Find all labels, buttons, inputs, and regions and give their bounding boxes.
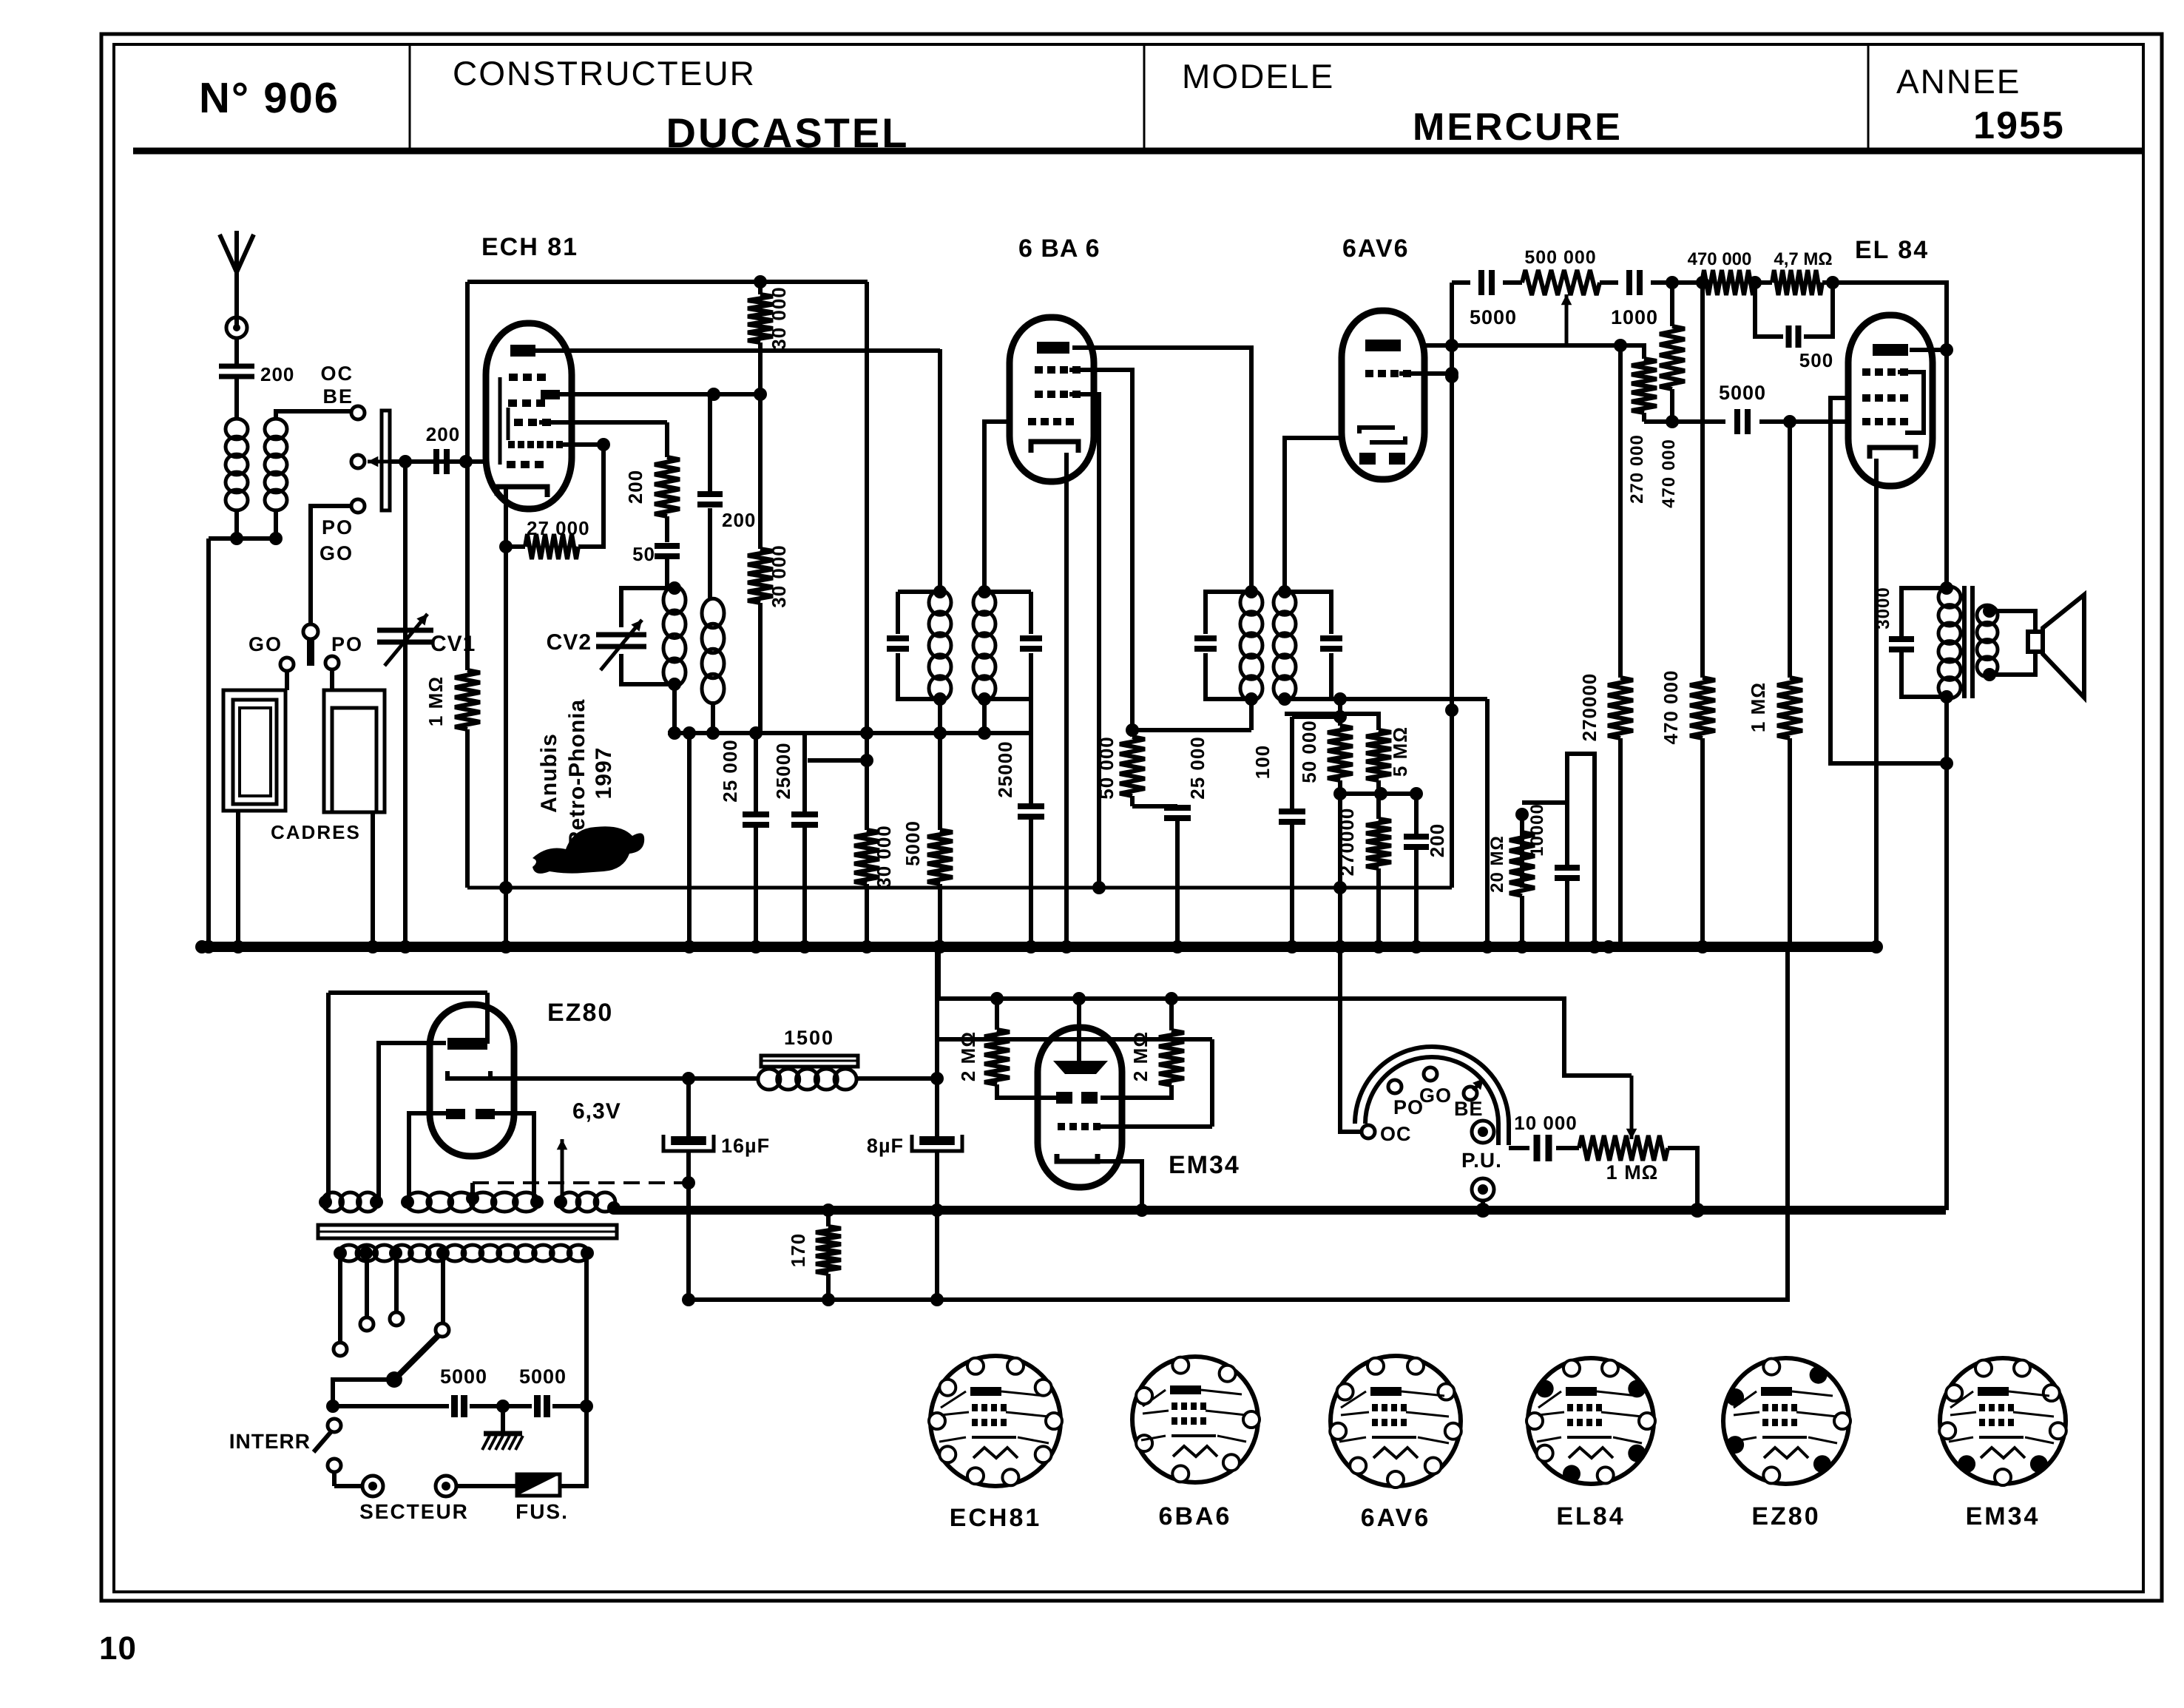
label EZ80 xyxy=(547,999,613,1027)
svg-text:27 000: 27 000 xyxy=(527,517,590,539)
transformer mains winding xyxy=(339,1245,589,1261)
tube ECH81 xyxy=(486,323,572,509)
return line xyxy=(686,947,1788,1300)
header bottom rule xyxy=(133,148,2143,155)
capacitor 200 input xyxy=(426,423,460,474)
svg-text:25 000: 25 000 xyxy=(719,739,741,803)
transformer HV winding xyxy=(322,1192,615,1212)
svg-text:1000: 1000 xyxy=(1611,306,1658,328)
label GO dial xyxy=(1419,1084,1452,1107)
svg-text:MERCURE: MERCURE xyxy=(1413,106,1623,149)
transformer core xyxy=(318,1225,617,1238)
capacitor 25000 b xyxy=(772,733,818,953)
IFT2 secondary tank xyxy=(1278,585,1342,706)
label 6AV6 xyxy=(1342,234,1410,263)
capacitor 3000 xyxy=(1873,587,1947,697)
svg-text:1997: 1997 xyxy=(592,747,616,800)
ECH81 g2 wire xyxy=(560,388,767,401)
resistor 27000 xyxy=(499,445,604,559)
transformer CT riser xyxy=(466,1192,479,1205)
capacitor 1000 xyxy=(1600,270,1679,328)
label 6.3V xyxy=(572,1099,621,1124)
title MERCURE xyxy=(1413,106,1623,149)
capacitor 25000 a xyxy=(719,726,769,953)
ECH81 g1 wire xyxy=(561,438,610,451)
6BA6 screen wire xyxy=(1069,370,1132,737)
heater bus xyxy=(614,1206,1946,1215)
band selector bar xyxy=(382,411,390,510)
osc right column xyxy=(860,282,873,830)
svg-text:50: 50 xyxy=(632,543,655,565)
detector node wire xyxy=(1340,787,1423,800)
svg-text:EM34: EM34 xyxy=(1169,1151,1240,1179)
header divider 3 xyxy=(1867,46,1870,151)
contact BE dial xyxy=(1464,1079,1484,1100)
svg-text:ANNEE: ANNEE xyxy=(1896,62,2021,101)
EL84 anode link xyxy=(1910,348,1947,352)
cadre PO frame xyxy=(324,690,385,812)
label PO dial xyxy=(1393,1096,1424,1118)
antenna coil L2 xyxy=(265,419,287,510)
resistor 270000 a xyxy=(1620,345,1657,504)
contact PO cadre xyxy=(325,656,339,690)
6AV6 grid row xyxy=(1365,367,1458,380)
antenna terminal xyxy=(226,317,247,338)
switch to interr xyxy=(326,1380,394,1413)
socket 6BA6 xyxy=(1132,1357,1260,1482)
svg-text:EL 84: EL 84 xyxy=(1855,236,1929,264)
svg-text:100: 100 xyxy=(1251,745,1274,779)
osc coil 2 xyxy=(702,598,724,740)
capacitor 200 antenna xyxy=(219,363,294,385)
svg-text:5000: 5000 xyxy=(440,1366,487,1388)
resistor 470000 top xyxy=(1672,249,1762,295)
svg-text:CV2: CV2 xyxy=(547,630,592,655)
wire to ground bus left xyxy=(202,539,215,953)
capacitor 16uF xyxy=(663,1079,770,1306)
svg-text:EZ80: EZ80 xyxy=(547,999,613,1027)
header divider 1 xyxy=(409,46,411,151)
IFT2 primary tank xyxy=(1194,585,1258,706)
EM34 deflector blocks xyxy=(1056,1092,1098,1104)
terminal SECTEUR 1 xyxy=(362,1476,383,1496)
resistor 50000 det xyxy=(1298,699,1353,953)
svg-text:6BA6: 6BA6 xyxy=(1159,1502,1232,1530)
IFT2 primary coil xyxy=(1240,590,1262,701)
ECH81 grid row 2 xyxy=(508,399,545,407)
contact PO dial xyxy=(1388,1080,1402,1093)
6BA6 grid row 2 xyxy=(1035,391,1081,398)
capacitor 5000 mains a xyxy=(333,1366,532,1417)
svg-text:2 MΩ: 2 MΩ xyxy=(957,1031,979,1081)
socket label ECH81 xyxy=(950,1504,1042,1532)
ECH81 cathode xyxy=(497,487,547,547)
6BA6 grid row 1 xyxy=(1035,366,1081,374)
svg-text:6AV6: 6AV6 xyxy=(1342,234,1410,263)
interr switch xyxy=(314,1419,341,1486)
title ANNEE xyxy=(1896,62,2021,101)
label PU xyxy=(1461,1149,1502,1172)
svg-text:6,3V: 6,3V xyxy=(572,1099,621,1124)
svg-text:EM34: EM34 xyxy=(1966,1502,2041,1530)
capacitor 25000 c xyxy=(994,699,1044,953)
svg-text:1500: 1500 xyxy=(784,1027,834,1049)
EL84 grid row 3 xyxy=(1862,418,1908,425)
6BA6 cathode xyxy=(1031,442,1078,453)
svg-text:6AV6: 6AV6 xyxy=(1361,1504,1431,1532)
resistor 30000 osc 2 xyxy=(748,394,790,733)
svg-text:SECTEUR: SECTEUR xyxy=(359,1500,469,1523)
title 1955 xyxy=(1973,104,2065,147)
svg-text:200: 200 xyxy=(624,470,646,504)
svg-text:N° 906: N° 906 xyxy=(199,74,339,122)
svg-text:GO: GO xyxy=(320,542,354,564)
tube 6BA6 xyxy=(1010,317,1094,482)
6BA6 AVC return xyxy=(1069,394,1106,894)
ECH81 grid row 3 xyxy=(514,419,551,426)
jack PU bottom wire xyxy=(1475,1201,1490,1218)
6AV6 anode wire xyxy=(1424,339,1644,352)
label GO xyxy=(249,633,283,655)
choke 1500 coil xyxy=(758,1069,856,1090)
page number 10 xyxy=(99,1630,137,1667)
mains tap drops xyxy=(340,1253,586,1406)
EZ80 plate2 wire xyxy=(379,1043,446,1202)
osc bottom line xyxy=(668,684,1030,740)
label OC dial xyxy=(1380,1123,1412,1145)
potentiometer 500000 xyxy=(1522,247,1600,295)
AVC column xyxy=(499,547,513,953)
capacitor 100 xyxy=(1251,710,1347,953)
EM34 grid row xyxy=(1058,1039,1212,1130)
svg-text:OC: OC xyxy=(321,362,354,385)
capacitor 200 det xyxy=(1404,794,1448,953)
ECH81 internal stems xyxy=(500,377,508,465)
cathode B+ wire xyxy=(490,1072,760,1085)
label 1500 xyxy=(784,1027,834,1049)
wire antenna to cap xyxy=(234,338,239,364)
svg-text:30 000: 30 000 xyxy=(768,544,790,608)
volume column xyxy=(1445,283,1458,888)
jack PU top xyxy=(1472,1121,1494,1143)
resistor 4.7 Mohm xyxy=(1755,249,1839,295)
jack PU bottom xyxy=(1472,1178,1494,1201)
contact GO cadre xyxy=(280,658,294,690)
svg-text:200: 200 xyxy=(260,363,294,385)
6BA6 cathode drop xyxy=(1060,453,1073,953)
title N 906 xyxy=(199,74,339,122)
osc top line xyxy=(467,280,868,284)
EL84 cathode drop xyxy=(1870,459,1883,953)
feedback to anode xyxy=(1833,283,1953,588)
tube EL84 xyxy=(1848,315,1933,486)
resistor 30000 bias xyxy=(854,825,895,953)
svg-text:50 000: 50 000 xyxy=(1095,736,1118,800)
detector load wire xyxy=(1285,692,1494,953)
grid line EL84 xyxy=(1644,382,1851,434)
IFT1 primary coil xyxy=(929,590,951,701)
svg-text:200: 200 xyxy=(426,423,460,445)
6BA6 grid row 3 xyxy=(1028,418,1074,425)
variable capacitor CV1 xyxy=(377,455,476,953)
svg-text:270000: 270000 xyxy=(1336,808,1358,877)
ground bus xyxy=(202,942,1879,952)
svg-text:5000: 5000 xyxy=(519,1366,567,1388)
svg-text:25000: 25000 xyxy=(772,742,794,799)
svg-text:PO: PO xyxy=(322,516,354,539)
socket EZ80 xyxy=(1723,1358,1850,1484)
title DUCASTEL xyxy=(666,109,910,156)
ECH81 g3 wire xyxy=(539,420,667,425)
label EL 84 xyxy=(1855,236,1929,264)
capacitor 5000 vol xyxy=(1452,270,1522,328)
6AV6 diode plates xyxy=(1359,428,1405,442)
svg-text:FUS.: FUS. xyxy=(515,1500,569,1523)
svg-text:470 000: 470 000 xyxy=(1660,670,1682,745)
output transformer secondary xyxy=(1977,605,1998,677)
aux line y1405 xyxy=(937,945,1212,1039)
svg-text:25 000: 25 000 xyxy=(1186,736,1208,800)
resistor 5000 cath xyxy=(902,699,953,953)
B plus riser xyxy=(1944,697,1949,1210)
dial feed xyxy=(1333,940,1362,1132)
svg-text:1 MΩ: 1 MΩ xyxy=(425,676,447,726)
label OC xyxy=(321,362,354,385)
resistor 2 Mohm left xyxy=(957,992,1056,1098)
svg-text:CADRES: CADRES xyxy=(271,821,361,843)
resistor 470000 a xyxy=(1659,283,1685,508)
capacitor 10000 avc xyxy=(1522,803,1580,944)
svg-text:EZ80: EZ80 xyxy=(1751,1502,1820,1530)
svg-text:5 MΩ: 5 MΩ xyxy=(1389,726,1411,777)
wire PO-GO to switch xyxy=(311,506,351,625)
label CADRES xyxy=(271,821,361,843)
EL84 cathode xyxy=(1870,448,1916,459)
capacitor 8uF xyxy=(867,1039,962,1306)
EZ80 heater blocks xyxy=(446,1109,495,1119)
EZ80 heater right wire xyxy=(495,1113,534,1198)
socket label EZ80 xyxy=(1751,1502,1820,1530)
label PO xyxy=(331,633,363,655)
socket label EM34 xyxy=(1966,1502,2041,1530)
EL84 grid row 2 xyxy=(1862,394,1908,402)
EM34 cathode wire xyxy=(1098,1161,1149,1217)
resistor 2 Mohm right xyxy=(1101,992,1184,1098)
potentiometer 1 Mohm xyxy=(1579,1076,1705,1218)
EL84 anode xyxy=(1873,344,1908,356)
wire coil bottoms xyxy=(209,509,283,545)
svg-text:EL84: EL84 xyxy=(1556,1502,1625,1530)
IFT1 anode feed xyxy=(938,349,942,592)
svg-text:30 000: 30 000 xyxy=(768,286,790,350)
avc riser x2156 xyxy=(1567,754,1601,953)
ECH81 anode wire xyxy=(535,348,940,353)
IFT1 primary tank xyxy=(887,585,947,706)
svg-text:OC: OC xyxy=(1380,1123,1412,1145)
output transformer primary xyxy=(1938,581,1961,703)
EL84 grid bracket xyxy=(1898,372,1924,433)
watermark anubis xyxy=(533,699,644,874)
socket EM34 xyxy=(1939,1358,2066,1485)
cadre GO lead xyxy=(231,811,245,953)
capacitor 5000 mains b xyxy=(519,1366,586,1417)
svg-text:PO: PO xyxy=(331,633,363,655)
bus junctions xyxy=(195,940,945,953)
fuse FUS xyxy=(517,1474,560,1496)
label INTERR xyxy=(229,1430,311,1453)
wire signal line xyxy=(390,459,487,464)
EZ80 cathode bar xyxy=(447,1071,490,1079)
secteur wiring xyxy=(334,1484,517,1488)
cadre GO frame xyxy=(223,690,285,811)
aux line y1350 xyxy=(939,947,1632,1076)
IFT1 secondary coil xyxy=(973,590,995,701)
resistor 1 Mohm grid xyxy=(425,462,480,888)
transformer winding dots xyxy=(319,1195,621,1215)
contact OC dial xyxy=(1362,1125,1375,1138)
svg-text:5000: 5000 xyxy=(902,820,924,866)
svg-text:2 MΩ: 2 MΩ xyxy=(1129,1031,1152,1081)
svg-text:270 000: 270 000 xyxy=(1627,434,1647,504)
capacitor 10000 pu xyxy=(1509,1112,1579,1161)
resistor 1 Mohm af xyxy=(1747,422,1802,947)
resistor 50000 screen xyxy=(1095,736,1145,806)
svg-text:200: 200 xyxy=(722,509,756,531)
ECH81 grid row 1 xyxy=(509,374,546,381)
IFT1 secondary return xyxy=(978,699,991,740)
volume pot arrow xyxy=(1561,294,1572,345)
svg-text:500: 500 xyxy=(1799,349,1833,371)
ECH81 grid row 5 xyxy=(507,461,544,468)
osc left line xyxy=(465,282,470,462)
svg-text:GO: GO xyxy=(249,633,283,655)
resistor 270000 det xyxy=(1336,791,1391,953)
svg-text:5000: 5000 xyxy=(1719,382,1766,404)
dial arc xyxy=(1355,1047,1509,1145)
EZ80 heater left wire xyxy=(409,1113,446,1198)
contact OC-BE xyxy=(351,406,365,419)
svg-text:10 000: 10 000 xyxy=(1514,1112,1578,1134)
6BA6 anode xyxy=(1037,342,1069,354)
heater CT dashed xyxy=(473,1183,686,1198)
signal arrow xyxy=(368,456,399,467)
label GO sel xyxy=(320,542,354,564)
mains taps xyxy=(334,1246,594,1260)
svg-text:10: 10 xyxy=(99,1630,137,1667)
choke 1500 core xyxy=(761,1056,858,1067)
arrow 6.3V xyxy=(557,1139,568,1202)
svg-text:1955: 1955 xyxy=(1973,104,2065,147)
resistor 30000 osc top xyxy=(748,275,790,394)
speaker xyxy=(1983,595,2084,698)
terminal SECTEUR 2 xyxy=(436,1476,456,1496)
resistor 5 Mohm xyxy=(1285,714,1411,791)
svg-text:ECH 81: ECH 81 xyxy=(481,233,578,261)
wire L2 top to OC contact xyxy=(276,411,351,420)
svg-text:8µF: 8µF xyxy=(867,1135,904,1157)
svg-text:10000: 10000 xyxy=(1527,803,1547,857)
capacitor 25000 d xyxy=(1132,736,1208,953)
title CONSTRUCTEUR xyxy=(453,54,756,92)
ground drop x932 xyxy=(683,726,696,953)
capacitor 500 xyxy=(1755,283,1833,371)
label EM34 xyxy=(1169,1151,1240,1179)
6AV6 anode xyxy=(1365,340,1401,351)
tap terminals xyxy=(334,1312,449,1356)
svg-text:BE: BE xyxy=(322,385,354,408)
label FUS xyxy=(515,1500,569,1523)
svg-text:P.U.: P.U. xyxy=(1461,1149,1502,1172)
EL84 grid row 1 xyxy=(1862,368,1908,376)
svg-text:470 000: 470 000 xyxy=(1688,249,1752,269)
label BE xyxy=(322,385,354,408)
EZ80 anode xyxy=(447,993,487,1050)
6BA6 anode wire xyxy=(1072,348,1251,592)
choke output wire xyxy=(855,1072,944,1085)
label SECTEUR xyxy=(359,1500,469,1523)
socket label EL84 xyxy=(1556,1502,1625,1530)
wire cap to coil xyxy=(234,377,239,420)
EL84 screen wire xyxy=(1830,398,1953,770)
svg-text:Anubis: Anubis xyxy=(537,733,561,813)
svg-text:200: 200 xyxy=(1426,823,1448,857)
socket label 6BA6 xyxy=(1159,1502,1232,1530)
svg-text:GO: GO xyxy=(1419,1084,1452,1107)
resistor 200 osc grid xyxy=(624,422,680,542)
contact PO-GO xyxy=(351,499,365,513)
contact GO dial xyxy=(1424,1067,1437,1081)
svg-text:MODELE: MODELE xyxy=(1182,57,1334,95)
svg-text:4,7 MΩ: 4,7 MΩ xyxy=(1774,249,1832,269)
tube 6AV6 xyxy=(1342,311,1424,479)
AVC line xyxy=(467,886,1452,890)
svg-text:170: 170 xyxy=(787,1233,809,1267)
label PO sel xyxy=(322,516,354,539)
svg-text:3000: 3000 xyxy=(1873,587,1893,629)
svg-text:5000: 5000 xyxy=(1470,306,1517,328)
label ECH 81 xyxy=(481,233,578,261)
title MODELE xyxy=(1182,57,1334,95)
capacitor 50 xyxy=(632,543,680,588)
voltage switch lever xyxy=(386,1334,439,1388)
svg-text:25000: 25000 xyxy=(994,740,1016,797)
variable capacitor CV2 xyxy=(547,588,675,684)
6AV6 diode feed xyxy=(1285,438,1345,592)
socket EL84 xyxy=(1527,1358,1655,1484)
svg-text:6 BA 6: 6 BA 6 xyxy=(1018,234,1101,263)
svg-text:1 MΩ: 1 MΩ xyxy=(1747,682,1769,732)
resistor 20 Mohm xyxy=(1487,808,1535,953)
junction grid xyxy=(459,455,473,468)
ECH81 anode2 xyxy=(541,390,560,399)
svg-text:470 000: 470 000 xyxy=(1659,439,1679,508)
IFT1 secondary tank xyxy=(978,585,1042,706)
osc coil 1 xyxy=(663,581,686,691)
capacitor 200 osc xyxy=(697,394,756,601)
output transformer core xyxy=(1962,586,1975,698)
antenna coil L1 xyxy=(226,419,248,510)
svg-text:30 000: 30 000 xyxy=(873,825,895,888)
IFT2 secondary coil xyxy=(1274,590,1296,701)
6AV6 cathode blocks xyxy=(1359,453,1405,465)
EZ80 anode top line xyxy=(328,990,487,995)
svg-text:INTERR: INTERR xyxy=(229,1430,311,1453)
resistor 470000 b xyxy=(1660,276,1715,953)
cadre PO lead xyxy=(366,812,379,953)
label 6BA6 xyxy=(1018,234,1101,263)
tube EZ80 xyxy=(430,1005,514,1156)
svg-text:270000: 270000 xyxy=(1578,673,1600,742)
